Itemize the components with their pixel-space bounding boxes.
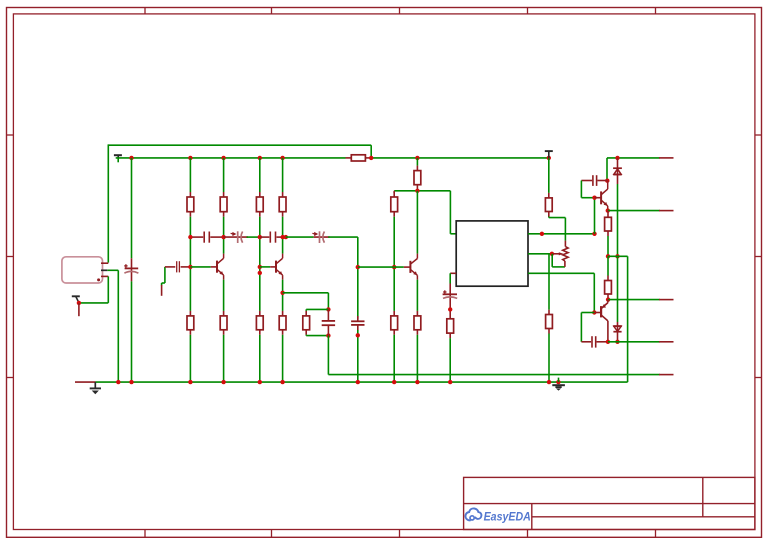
wire U1 pin2 down bbox=[449, 273, 451, 283]
wire mic pin3 to flag bbox=[79, 302, 108, 304]
node ground rail junctions bbox=[116, 380, 120, 384]
wire C6 to ground rail bbox=[357, 330, 359, 382]
wire feedback line bbox=[328, 374, 659, 376]
wire input step bbox=[164, 267, 166, 283]
wire node down from Q4 base bbox=[594, 198, 596, 234]
wire U1 pin to Q5 base net bbox=[528, 272, 594, 274]
resistor R4 bbox=[282, 158, 284, 192]
resistor R15 bbox=[393, 311, 395, 316]
wire D1 down bbox=[617, 184, 619, 256]
wire CP1 to C bbox=[247, 236, 260, 238]
wire line1 drop bbox=[606, 158, 608, 181]
transistor Q4 bbox=[600, 191, 602, 204]
resistor R17 bbox=[447, 319, 454, 333]
wire output line 2 bbox=[606, 208, 610, 212]
wire R17 to ground rail bbox=[449, 338, 451, 382]
net flag mic bbox=[72, 295, 80, 297]
title block bbox=[464, 477, 755, 529]
wire mic pin2 to ground rail bbox=[107, 269, 118, 271]
wire bias rail bbox=[394, 190, 450, 192]
wire Q3 base bbox=[358, 266, 404, 268]
wire Q3 collector up bbox=[416, 191, 418, 254]
microphone MK1 bbox=[62, 257, 103, 283]
wire U1 pin to node bbox=[528, 233, 595, 235]
resistor R19 bbox=[607, 256, 609, 275]
wire output line 4 bbox=[606, 340, 610, 344]
wire R9 to mid node bbox=[607, 236, 609, 256]
transistor Q1 bbox=[216, 261, 218, 273]
node cap row D bbox=[281, 235, 285, 239]
mic pin 2 bbox=[101, 269, 107, 271]
wire rail to C4 bbox=[131, 158, 133, 258]
wire column A mid bbox=[189, 237, 191, 267]
capacitor C1 bbox=[165, 266, 175, 268]
EasyEDA logo bbox=[465, 508, 481, 520]
wire output line 3 bbox=[606, 297, 610, 301]
node Q3 base tap bbox=[356, 265, 360, 269]
wire column E vertical bbox=[357, 237, 359, 319]
resistor R2 bbox=[223, 158, 225, 192]
transistor Q3 bbox=[409, 261, 411, 273]
ground symbol right bbox=[558, 378, 560, 383]
wire ground rail red tip bbox=[75, 381, 96, 383]
wire bias to U1 pin bbox=[449, 191, 451, 234]
capacitor C5 bbox=[327, 309, 329, 321]
wire C4 to ground rail bbox=[131, 281, 133, 382]
capacitor C2 bbox=[190, 236, 203, 238]
wire output line 1 bbox=[607, 157, 660, 159]
resistor R12 bbox=[259, 311, 261, 316]
capacitor C4 polarized bbox=[131, 258, 133, 281]
wire Q2 emitter down bbox=[282, 280, 284, 311]
pot wiper arrow bbox=[553, 253, 560, 255]
wire top jumper bbox=[108, 144, 371, 146]
wire mid node bbox=[606, 254, 610, 258]
stub wire below mic flag bbox=[78, 303, 80, 316]
resistor R3 bbox=[259, 158, 261, 192]
U1 left pin 2 bbox=[450, 272, 456, 274]
transistor Q5 PNP bbox=[600, 306, 602, 317]
net flag VCC right bbox=[545, 150, 553, 152]
wire U1 pin to pot wiper bbox=[528, 253, 552, 255]
resistor R6 bbox=[416, 158, 418, 166]
capacitor CP1 polarized bbox=[224, 236, 248, 238]
wire ground rail bbox=[96, 381, 628, 383]
capacitor C6 bbox=[357, 316, 359, 321]
node Q3 base cross bbox=[392, 265, 396, 269]
resistor R18 bbox=[548, 310, 550, 315]
resistor R7 bbox=[393, 192, 395, 197]
resistor R13 bbox=[282, 311, 284, 316]
resistor R5 bbox=[346, 157, 352, 159]
diode D1 bbox=[617, 158, 619, 168]
capacitor C9 bbox=[581, 341, 591, 343]
wire base net left bbox=[581, 312, 594, 314]
wire Q1 base bbox=[188, 265, 192, 269]
resistor R1 bbox=[189, 158, 191, 192]
wire to CP2 bbox=[286, 236, 314, 238]
wire Q1 collector up bbox=[223, 237, 225, 254]
wire Q5 base bbox=[592, 310, 596, 314]
input stub wire bbox=[161, 285, 163, 296]
wire VCC rail bbox=[116, 157, 346, 159]
node cap row C bbox=[258, 235, 262, 239]
wire Q2 collector up bbox=[282, 237, 284, 254]
capacitor C8 bbox=[581, 180, 592, 182]
potentiometer RP1 bbox=[564, 241, 566, 247]
diode D2 bbox=[617, 256, 619, 322]
wire pot tap to R18 bbox=[548, 254, 550, 310]
svg-text:EasyEDA: EasyEDA bbox=[484, 510, 531, 524]
wire RC network top bbox=[326, 307, 330, 311]
transistor Q2 bbox=[275, 261, 277, 273]
ground symbol left bbox=[94, 382, 96, 388]
capacitor C7 polarized bbox=[449, 284, 451, 319]
wire Q2 base bbox=[258, 265, 262, 269]
wire feedback down bbox=[327, 336, 329, 375]
wire VCC rail right bbox=[371, 157, 549, 159]
resistor R16 bbox=[416, 280, 418, 311]
wire C8 left to Q4 base bbox=[580, 181, 582, 198]
node cap row B bbox=[188, 235, 192, 239]
wire Q2 emitter jog bbox=[280, 291, 284, 295]
resistor R11 bbox=[223, 280, 225, 311]
wire jumper right drop bbox=[370, 145, 372, 158]
mic pin 3 bbox=[101, 275, 108, 277]
wire left drop to mic pin 1 bbox=[107, 144, 109, 262]
capacitor C3 bbox=[260, 236, 270, 238]
wire RC network bottom bbox=[306, 335, 328, 337]
wire mid node to ground rail bbox=[627, 256, 629, 382]
wire column C mid bbox=[259, 237, 261, 311]
resistor R14 bbox=[305, 309, 307, 311]
wire mic pin3 down bbox=[107, 276, 109, 303]
net flag VCC left bbox=[114, 154, 122, 156]
wire pot wiper loop bbox=[551, 254, 553, 267]
resistor R9 bbox=[607, 211, 609, 218]
wire CP2 to column E bbox=[328, 236, 358, 238]
mic pin 1 bbox=[101, 262, 108, 264]
wire R18 to ground rail bbox=[548, 334, 550, 383]
wire R7 top stub bbox=[393, 191, 395, 193]
capacitor CP2 polarized bbox=[314, 236, 330, 238]
node rail junctions bbox=[129, 156, 133, 160]
IC U1 bbox=[456, 221, 528, 286]
resistor R8 bbox=[548, 158, 550, 193]
wire R8 to pot bbox=[548, 217, 550, 218]
resistor R10 bbox=[189, 267, 191, 311]
